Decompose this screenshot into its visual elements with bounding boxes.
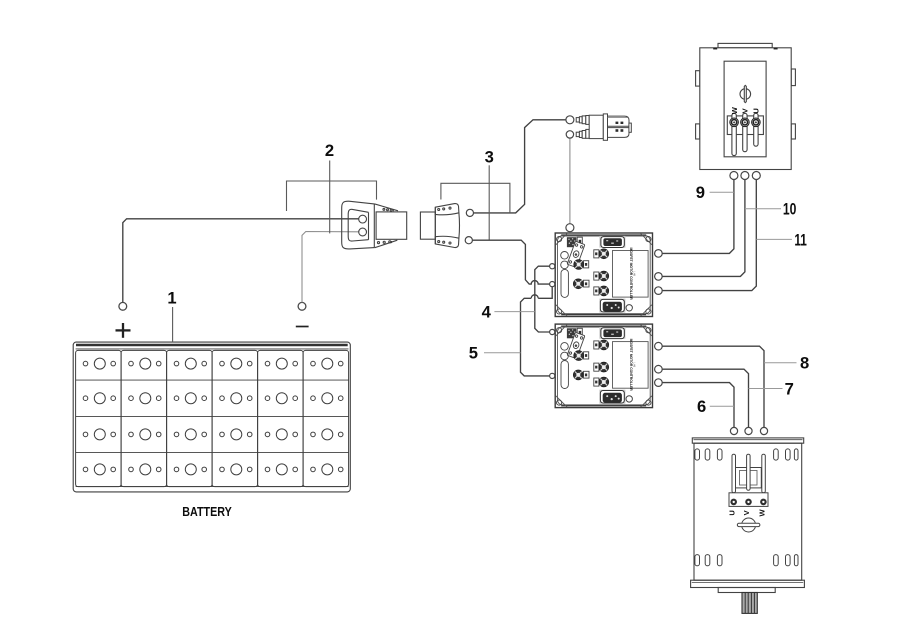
svg-text:10: 10 bbox=[783, 199, 797, 218]
svg-text:6: 6 bbox=[697, 397, 706, 416]
svg-text:8: 8 bbox=[800, 354, 809, 373]
svg-text:4: 4 bbox=[482, 303, 492, 322]
svg-text:W: W bbox=[730, 106, 739, 114]
svg-text:V: V bbox=[741, 108, 750, 113]
svg-text:5: 5 bbox=[469, 344, 478, 363]
svg-text:1: 1 bbox=[167, 289, 176, 308]
svg-text:3: 3 bbox=[485, 148, 494, 167]
svg-text:U: U bbox=[752, 108, 761, 113]
svg-text:9: 9 bbox=[696, 183, 705, 202]
svg-text:2: 2 bbox=[325, 141, 334, 160]
svg-text:W: W bbox=[758, 508, 767, 516]
svg-text:7: 7 bbox=[785, 379, 794, 398]
svg-text:BATTERY: BATTERY bbox=[182, 504, 232, 519]
svg-text:U: U bbox=[728, 510, 737, 515]
svg-text:V: V bbox=[742, 510, 751, 515]
svg-text:11: 11 bbox=[794, 230, 807, 249]
